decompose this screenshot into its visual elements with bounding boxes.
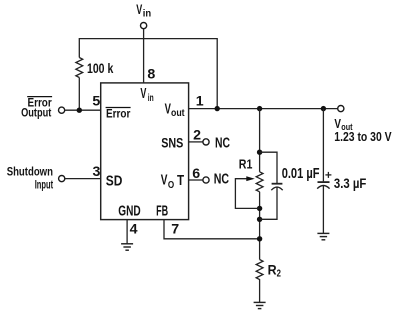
svg-text:NC: NC <box>214 171 229 187</box>
svg-text:7: 7 <box>171 221 179 237</box>
svg-text:2: 2 <box>277 268 282 279</box>
svg-text:V: V <box>136 2 142 18</box>
svg-text:NC: NC <box>215 136 230 152</box>
svg-text:R: R <box>268 263 277 278</box>
svg-text:FB: FB <box>156 204 168 220</box>
svg-text:O: O <box>168 180 174 191</box>
svg-text:3: 3 <box>93 164 101 180</box>
svg-text:SD: SD <box>106 174 123 190</box>
svg-text:SNS: SNS <box>161 135 183 151</box>
svg-text:in: in <box>148 93 154 104</box>
svg-text:V: V <box>161 173 168 189</box>
svg-text:1.23 to 30 V: 1.23 to 30 V <box>334 129 392 144</box>
svg-text:2: 2 <box>193 128 201 144</box>
svg-text:4: 4 <box>130 221 138 237</box>
svg-text:in: in <box>143 9 151 20</box>
svg-text:3.3 µF: 3.3 µF <box>334 176 367 192</box>
svg-text:Output: Output <box>21 106 51 120</box>
svg-text:6: 6 <box>192 166 200 182</box>
svg-text:R1: R1 <box>239 157 253 172</box>
svg-text:100 k: 100 k <box>87 60 113 76</box>
svg-text:V: V <box>140 86 146 102</box>
svg-text:T: T <box>177 173 184 189</box>
svg-text:out: out <box>171 108 185 119</box>
svg-text:GND: GND <box>118 204 140 220</box>
svg-text:Input: Input <box>35 177 53 191</box>
svg-text:5: 5 <box>92 93 100 109</box>
svg-text:8: 8 <box>147 66 155 82</box>
svg-text:Error: Error <box>106 107 131 121</box>
svg-text:0.01 µF: 0.01 µF <box>282 166 320 182</box>
svg-text:1: 1 <box>196 94 204 110</box>
